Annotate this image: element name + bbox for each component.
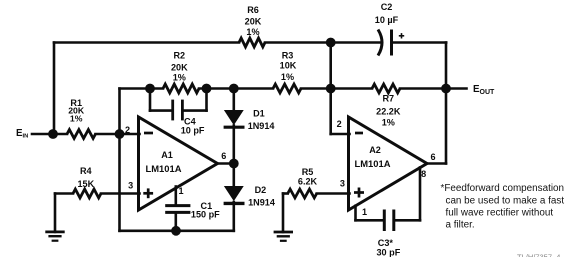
svg-text:R5: R5 xyxy=(302,167,314,177)
svg-text:22.2K: 22.2K xyxy=(376,107,401,117)
svg-text:A2: A2 xyxy=(369,145,381,155)
svg-text:1%: 1% xyxy=(173,73,186,83)
svg-text:10K: 10K xyxy=(280,60,297,70)
svg-text:1%: 1% xyxy=(281,72,294,82)
svg-text:1: 1 xyxy=(362,207,367,217)
svg-text:1%: 1% xyxy=(70,113,83,123)
svg-text:20K: 20K xyxy=(171,62,188,72)
svg-text:R2: R2 xyxy=(173,51,185,61)
svg-text:15K: 15K xyxy=(77,179,94,189)
svg-text:150 pF: 150 pF xyxy=(191,209,220,219)
svg-text:6.2K: 6.2K xyxy=(298,177,318,187)
svg-text:C2: C2 xyxy=(381,2,393,12)
svg-text:3: 3 xyxy=(340,179,345,189)
svg-text:a filter.: a filter. xyxy=(446,220,475,231)
svg-text:LM101A: LM101A xyxy=(146,163,182,174)
svg-text:3: 3 xyxy=(128,181,133,191)
svg-text:full wave rectifier without: full wave rectifier without xyxy=(446,208,554,219)
svg-text:D1: D1 xyxy=(253,108,265,118)
svg-text:1: 1 xyxy=(178,186,183,196)
svg-text:6: 6 xyxy=(221,151,226,161)
svg-text:D2: D2 xyxy=(255,185,267,195)
svg-text:1%: 1% xyxy=(382,118,395,128)
svg-text:6: 6 xyxy=(430,152,435,162)
svg-text:10 pF: 10 pF xyxy=(181,125,205,135)
svg-text:A1: A1 xyxy=(161,150,173,160)
svg-text:1N914: 1N914 xyxy=(248,121,276,131)
svg-text:1N914: 1N914 xyxy=(248,197,276,207)
svg-text:LM101A: LM101A xyxy=(355,158,391,169)
svg-text:can be used to make a fast: can be used to make a fast xyxy=(446,195,565,206)
svg-text:R3: R3 xyxy=(282,50,294,60)
svg-text:8: 8 xyxy=(421,169,426,179)
svg-text:R6: R6 xyxy=(247,5,259,15)
svg-text:1%: 1% xyxy=(246,27,259,37)
svg-text:2: 2 xyxy=(337,119,342,129)
svg-text:TL/H/7357–4: TL/H/7357–4 xyxy=(517,253,560,257)
svg-text:10 µF: 10 µF xyxy=(375,15,399,25)
svg-text:R4: R4 xyxy=(80,166,93,176)
svg-text:30 pF: 30 pF xyxy=(377,247,401,257)
svg-text:2: 2 xyxy=(125,125,130,135)
svg-text:*Feedforward compensation: *Feedforward compensation xyxy=(441,183,565,194)
svg-text:R7: R7 xyxy=(382,94,394,104)
svg-text:20K: 20K xyxy=(245,16,262,26)
